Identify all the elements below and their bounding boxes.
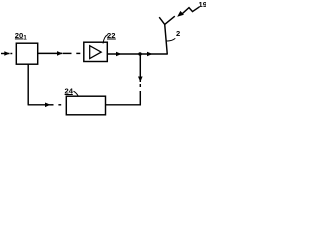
op-amp box 22 <box>84 42 108 61</box>
label 20 subscript 1 <box>15 31 28 42</box>
wire junction down to box 24 <box>106 54 143 105</box>
box 24 <box>66 96 105 115</box>
svg-text:19: 19 <box>199 0 207 9</box>
node junction <box>138 52 141 55</box>
box 20 <box>16 43 37 64</box>
label 19 <box>199 0 207 9</box>
antenna mast 2 <box>159 16 175 54</box>
svg-text:2: 2 <box>176 29 180 38</box>
amplifier triangle <box>90 46 102 59</box>
wire amplifier to antenna with junction <box>107 52 167 57</box>
label 24 with leader <box>65 86 79 95</box>
label 2 with leader <box>166 29 180 41</box>
radiation zigzag arrow 19 <box>177 7 199 17</box>
wire box 20 down and into box 24 <box>28 64 62 107</box>
wire box 20 to amplifier 22 <box>38 51 81 56</box>
label 22 with leader <box>103 31 116 44</box>
wire input arrow into box 20 <box>1 51 12 56</box>
